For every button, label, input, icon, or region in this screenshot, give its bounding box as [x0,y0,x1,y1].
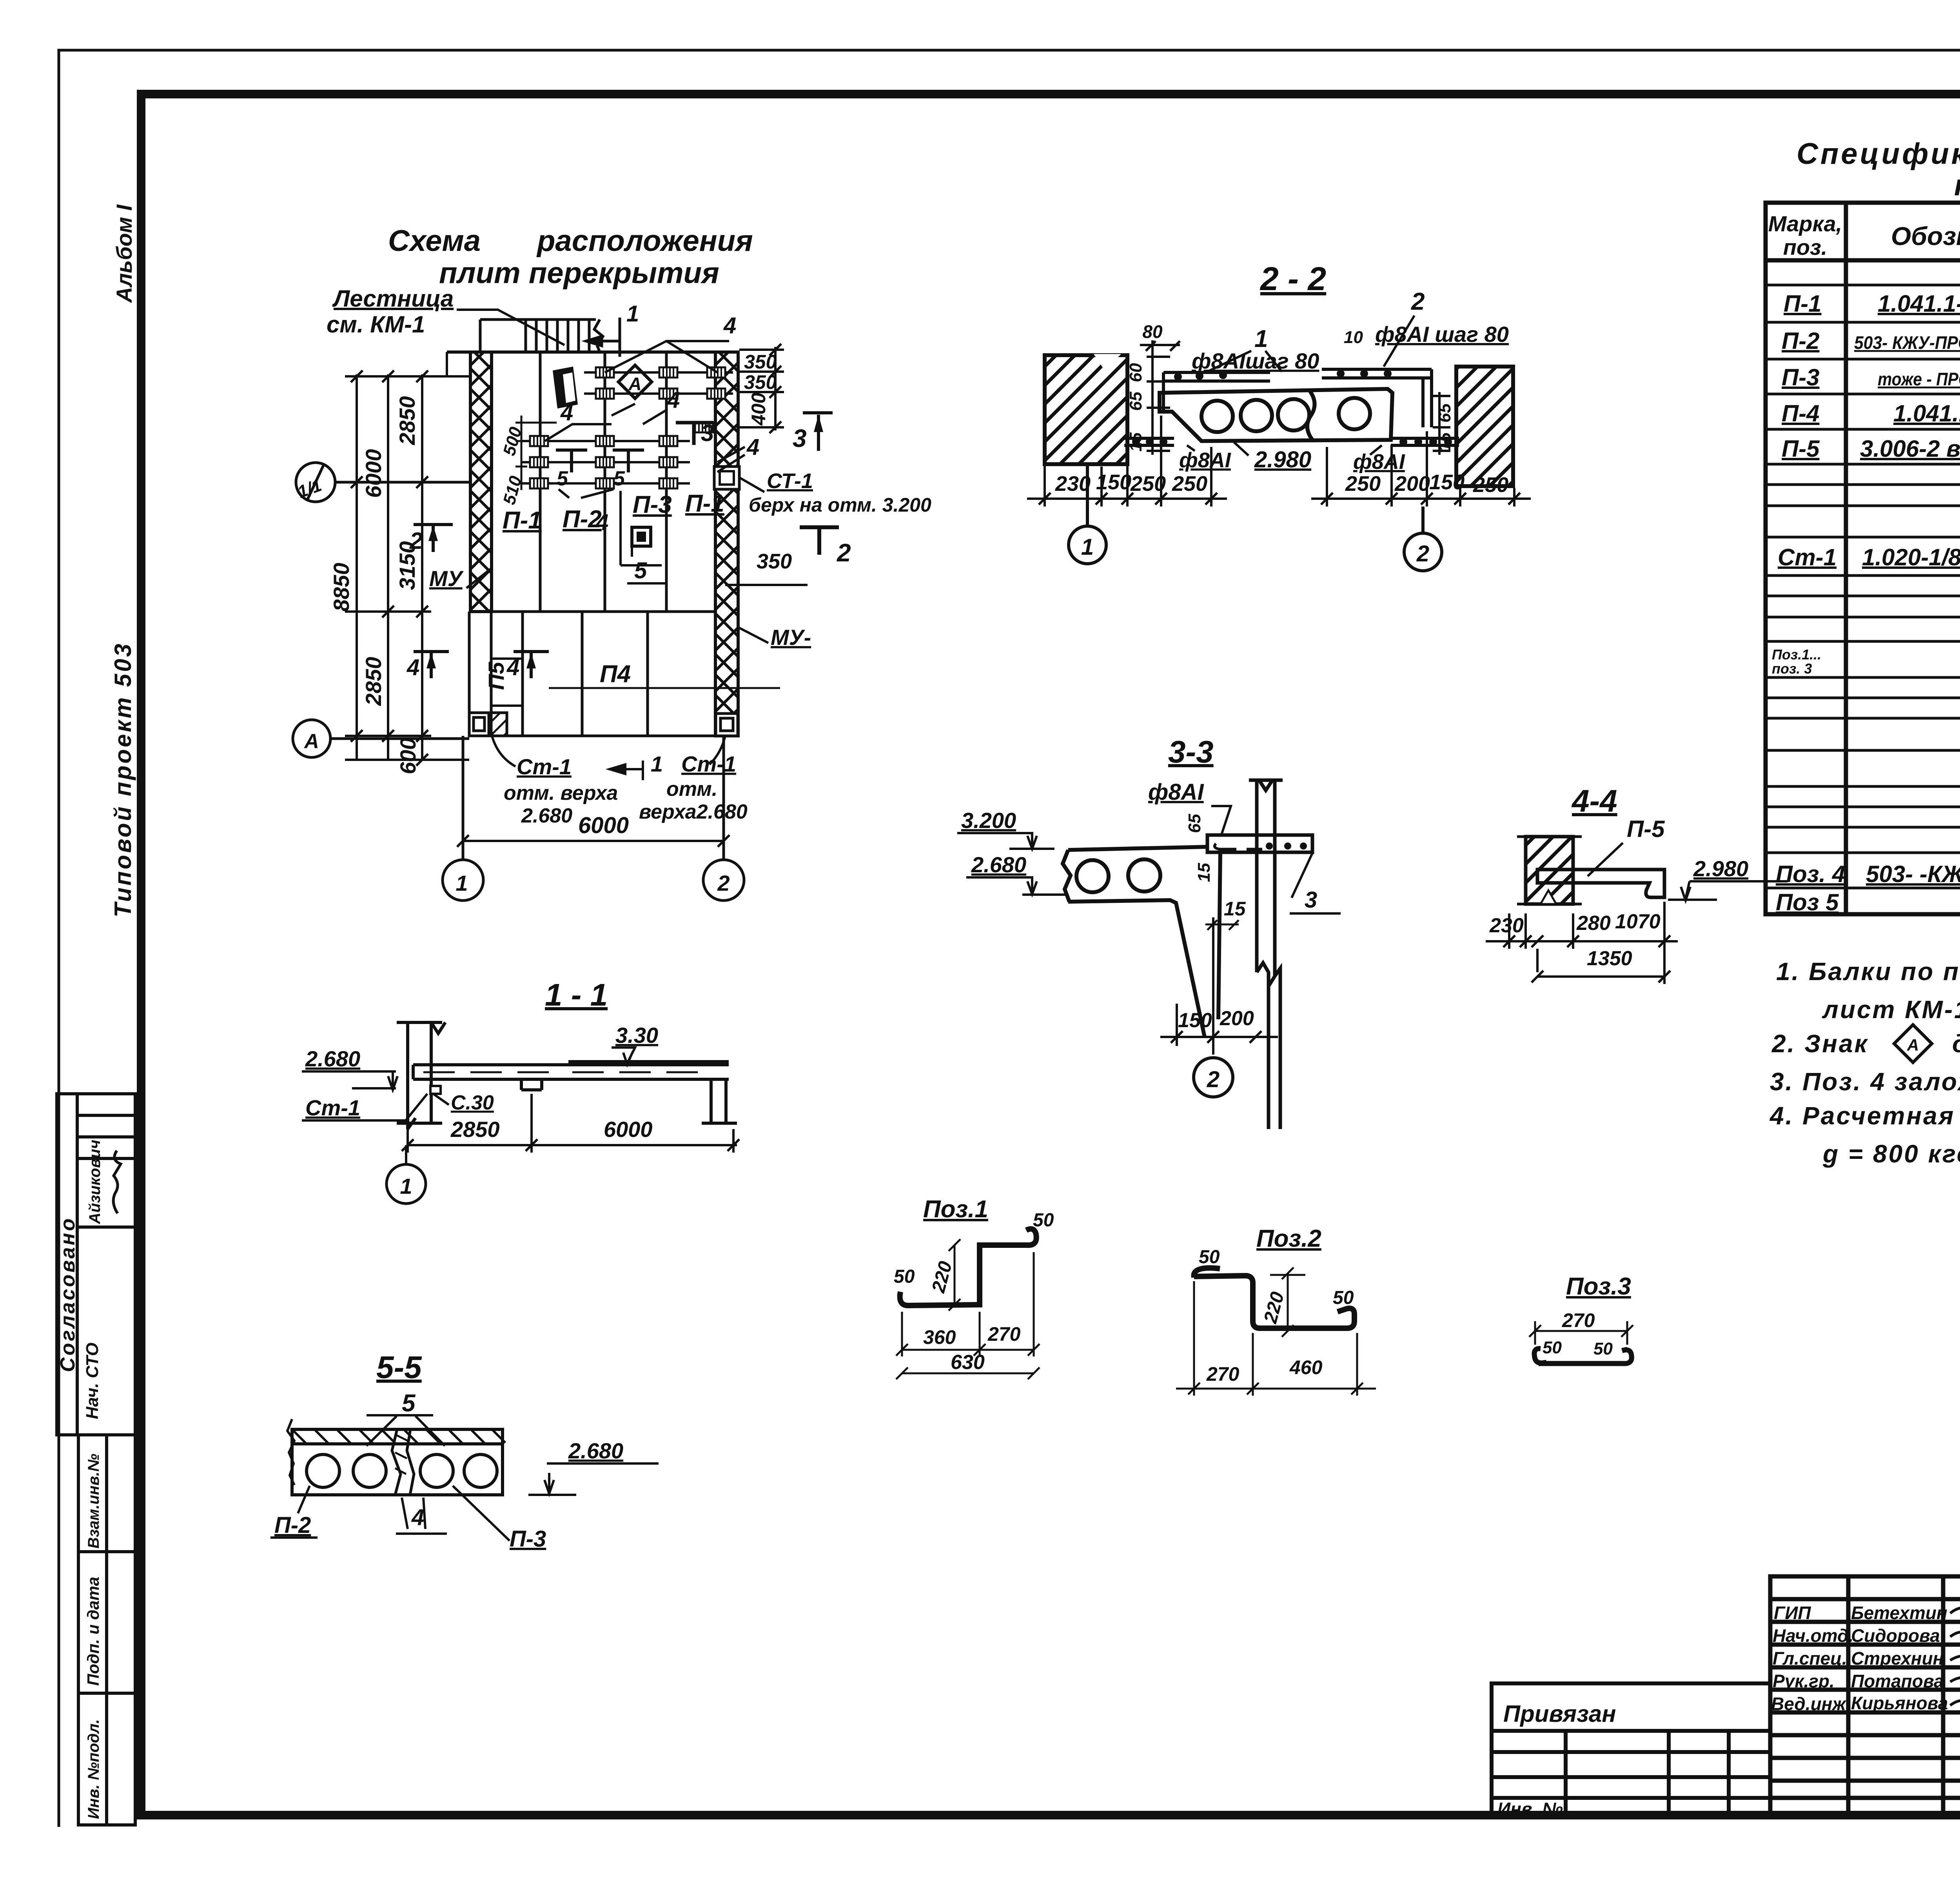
Ст-1 white box on right wall [714,467,739,489]
svg-text:берх на отм. 3.200: берх на отм. 3.200 [749,494,931,516]
column [397,1022,445,1129]
dims [402,1094,739,1153]
svg-text:4: 4 [407,655,419,680]
svg-text:Альбом I: Альбом I [112,204,136,303]
svg-text:ГИП: ГИП [1774,1603,1811,1623]
plate labels [484,490,724,690]
ticks [351,370,428,382]
sidebar box: Инв. №подл. [78,1693,135,1825]
svg-text:Ст-1: Ст-1 [305,1095,360,1120]
svg-text:П-3: П-3 [633,491,672,518]
svg-text:Сидорова: Сидорова [1851,1625,1940,1646]
svg-text:200: 200 [1394,472,1430,496]
right top dims 350/350/400 [739,344,784,433]
svg-text:Гл.спец.: Гл.спец. [1773,1648,1847,1669]
Т2 symbol [800,527,839,555]
svg-text:2850: 2850 [361,657,386,706]
svg-text:4: 4 [667,387,680,413]
svg-text:250: 250 [1473,473,1508,497]
left wall lower edge line [468,612,471,736]
slab [292,1429,503,1495]
svg-text:5-5: 5-5 [376,1350,422,1385]
svg-text:Бетехтин: Бетехтин [1851,1603,1947,1623]
svg-text:Поз. 4: Поз. 4 [1776,861,1845,887]
svg-text:СТ-1: СТ-1 [767,469,813,493]
svg-text:П-2: П-2 [274,1512,311,1538]
svg-text:А: А [303,730,319,753]
svg-text:50: 50 [1543,1338,1562,1357]
svg-text:350: 350 [744,351,777,373]
svg-text:МУ: МУ [429,566,464,591]
svg-text:Нач.отд.: Нач.отд. [1773,1625,1853,1646]
svg-text:50: 50 [894,1266,915,1287]
dims [1486,902,1678,984]
svg-text:2: 2 [837,539,851,567]
svg-text:С.30: С.30 [451,1091,494,1114]
svg-text:П4: П4 [600,661,631,688]
bottom dims [1160,1004,1278,1046]
svg-text:отм. верха: отм. верха [504,782,618,804]
svg-text:Взам.инв.№: Взам.инв.№ [85,1454,102,1549]
svg-text:тоже - ПРС56.15-16АтVт-б: тоже - ПРС56.15-16АтVт-б [1878,369,1960,389]
svg-text:3.200: 3.200 [961,808,1016,833]
500/510 small dims in plan [515,416,557,490]
svg-text:отм.: отм. [666,778,717,801]
svg-text:230: 230 [1055,472,1091,496]
top hatch band [292,1429,505,1444]
slab body with cores [1160,389,1392,441]
grid [1766,203,1960,914]
left break edge [287,1419,294,1485]
svg-text:А: А [628,374,641,394]
svg-text:150: 150 [1178,1009,1212,1032]
right small dim chain [1433,392,1450,455]
section cut 1 at top [586,318,620,357]
svg-text:верха2.680: верха2.680 [639,801,748,823]
svg-text:1350: 1350 [1587,947,1632,970]
svg-text:270: 270 [987,1323,1021,1345]
svg-text:5: 5 [634,558,647,583]
svg-text:3-3: 3-3 [1168,734,1214,769]
svg-text:65: 65 [1126,392,1145,411]
4 arrow symbols lower [414,652,549,678]
svg-text:4: 4 [560,400,573,425]
svg-text:80: 80 [1142,321,1163,342]
black orientation mark (trapezoid) [553,367,578,409]
svg-text:П-2: П-2 [1782,328,1820,354]
svg-text:2.980: 2.980 [1254,447,1311,472]
svg-text:П5: П5 [484,662,508,690]
middle joint [392,1429,414,1495]
svg-text:Поз.1: Поз.1 [923,1196,988,1223]
svg-text:П-4: П-4 [1782,400,1820,427]
2 arrow symbol in plan [414,525,453,552]
svg-text:см. КМ-1: см. КМ-1 [327,311,425,338]
svg-text:Стрехнин: Стрехнин [1851,1648,1944,1669]
svg-text:600: 600 [396,738,420,774]
svg-text:5: 5 [402,1390,416,1417]
svg-text:270: 270 [1206,1363,1240,1385]
svg-text:Потапова: Потапова [1851,1671,1944,1691]
diamond А mark [619,365,652,399]
svg-text:Поз.1...: Поз.1... [1772,646,1821,663]
svg-text:5: 5 [613,467,625,490]
svg-text:250: 250 [1130,472,1166,496]
svg-text:3: 3 [1305,887,1317,913]
plate joints vertical [469,352,738,736]
svg-text:П-3: П-3 [510,1526,546,1552]
svg-text:поз. 3: поз. 3 [1772,661,1812,677]
svg-text:2: 2 [1411,288,1425,315]
привязан annex [1492,1683,1770,1815]
svg-text:60: 60 [1126,363,1145,382]
right masonry hatched [1456,367,1513,486]
svg-text:50: 50 [1199,1247,1220,1267]
svg-text:Нач. СТО: Нач. СТО [83,1343,102,1419]
slab with cores and rib [1063,847,1220,1037]
svg-text:МУ-: МУ- [771,625,811,650]
svg-text:Спецификация к схеме распол: Спецификация к схеме расположения [1797,137,1960,171]
slab hatch ticks [423,1071,698,1073]
svg-text:460: 460 [1289,1356,1323,1378]
left wall hatched [470,352,492,612]
axis circle 2 [1194,1058,1233,1097]
svg-text:Подп. и дата: Подп. и дата [84,1577,102,1686]
svg-text:2 - 2: 2 - 2 [1259,260,1326,297]
svg-text:50: 50 [1593,1339,1613,1358]
svg-text:Вед.инж.: Вед.инж. [1771,1694,1851,1714]
svg-text:1.041.1-2 вып.1: 1.041.1-2 вып.1 [1878,291,1960,317]
Т3 symbol right [676,423,713,445]
svg-text:1070: 1070 [1615,910,1661,933]
svg-text:10: 10 [1344,328,1363,347]
axis line down to circle [1212,917,1214,1055]
П5 inner lines [491,659,523,706]
top anchor plate [1207,835,1312,852]
3 arrow symbol right [803,413,833,451]
bottom dims [1176,1281,1376,1396]
svg-text:3.30: 3.30 [615,1023,658,1048]
svg-text:ф8АI шаг 80: ф8АI шаг 80 [1375,322,1509,347]
svg-text:Ст-1: Ст-1 [1778,544,1837,570]
axis circles [293,463,744,901]
svg-text:П-1: П-1 [503,507,542,534]
section marks 5 in plan [556,450,644,472]
signatures part [1770,1576,1960,1815]
svg-text:503- -КЖИ-МН-2: 503- -КЖИ-МН-2 [1866,861,1960,887]
bottom dim chain [1027,416,1531,507]
svg-text:50: 50 [1333,1287,1354,1308]
svg-text:4: 4 [506,655,519,680]
bottom corner boxes (Ст-1) [469,713,738,736]
right wall hatched [715,352,738,736]
svg-text:250: 250 [1345,472,1381,496]
signature scribbles [1950,1601,1960,1713]
bottom 6000 dim [457,835,730,847]
svg-text:2850: 2850 [395,396,419,445]
svg-text:3.006-2 вып. П-2: 3.006-2 вып. П-2 [1860,436,1960,462]
svg-text:Айзикович: Айзикович [86,1140,103,1224]
svg-text:4: 4 [411,1505,424,1530]
svg-text:Схема: Схема [388,224,481,258]
svg-text:Поз.2: Поз.2 [1256,1225,1321,1252]
svg-text:поз.: поз. [1783,235,1828,260]
svg-text:2.680: 2.680 [568,1438,623,1463]
svg-text:230: 230 [1489,914,1524,937]
left small dim chain [1140,340,1180,455]
top edge of slabs [447,350,715,354]
svg-text:Согласовано: Согласовано [56,1216,79,1372]
svg-text:Ст-1: Ст-1 [681,752,736,776]
svg-text:400: 400 [748,392,769,426]
table body rows [1772,258,1960,915]
svg-text:2.680: 2.680 [971,852,1026,877]
svg-text:1: 1 [1081,534,1094,560]
leader 4 labels [545,341,745,498]
svg-text:Привязан: Привязан [1503,1701,1616,1727]
svg-text:Инв. №: Инв. № [1497,1799,1563,1819]
svg-text:4. Расчетная нагрузка на: 4. Расчетная нагрузка на перекрытие [1769,1102,1960,1130]
svg-text:1: 1 [400,1174,412,1198]
svg-text:ф8АI: ф8АI [1148,779,1204,805]
svg-text:2.680: 2.680 [305,1046,360,1071]
5 with small square [632,527,651,546]
svg-text:ф8АI: ф8АI [1353,450,1405,474]
svg-text:3: 3 [701,420,714,446]
svg-text:350: 350 [757,550,792,573]
svg-text:1: 1 [626,301,639,327]
svg-text:65: 65 [1435,403,1454,423]
svg-text:2: 2 [1416,541,1429,566]
svg-text:3. Поз. 4 заложить в швы п: 3. Поз. 4 заложить в швы плит перекрытия [1770,1068,1960,1096]
svg-text:1. Балки по перекрытию и л: 1. Балки по перекрытию и лестницу см. [1776,957,1960,986]
svg-text:65: 65 [1185,814,1204,833]
svg-text:2. Знак: 2. Знак [1771,1029,1869,1058]
svg-text:2850: 2850 [450,1117,500,1142]
svg-text:2: 2 [1207,1067,1220,1092]
bent bar [1194,1268,1354,1328]
svg-text:П-1: П-1 [685,490,724,517]
svg-text:2.980: 2.980 [1693,856,1748,881]
section 5 enclosure [621,491,662,565]
masonry [1526,837,1573,904]
svg-text:П-5: П-5 [1782,436,1820,462]
svg-text:лист КМ-1.: лист КМ-1. [1822,995,1960,1024]
note 2 diamond symbol [1894,1025,1932,1062]
svg-text:дан для ориентации плиты.: дан для ориентации плиты. [1952,1029,1960,1058]
svg-text:15: 15 [1224,898,1246,920]
svg-text:3150: 3150 [395,541,419,590]
svg-text:15: 15 [1194,863,1214,882]
sidebar box: Взам.инв.№ [78,1435,135,1552]
topping plates with rebar dots [1163,369,1432,427]
left masonry hatched [1045,355,1127,464]
slab strip [413,1062,737,1123]
svg-text:150: 150 [1429,470,1465,494]
svg-text:270: 270 [1562,1309,1595,1331]
axis circles [1069,464,1442,571]
svg-text:плит перекрытия: плит перекрытия [1954,169,1960,202]
220 vertical dim [1270,1267,1305,1337]
svg-text:ф8АIшаг 80: ф8АIшаг 80 [1192,349,1319,373]
svg-text:g = 800 кгс/м².: g = 800 кгс/м². [1822,1140,1960,1168]
svg-text:Поз.3: Поз.3 [1566,1273,1631,1300]
svg-text:Рук.гр.: Рук.гр. [1773,1671,1835,1691]
svg-text:А: А [1907,1036,1919,1054]
svg-text:200: 200 [1220,1007,1254,1030]
svg-text:5: 5 [557,467,568,490]
svg-text:2.680: 2.680 [521,804,572,827]
axis circle [387,1164,426,1204]
stairs [480,320,603,352]
svg-text:8850: 8850 [329,563,354,612]
slab [1537,870,1664,897]
svg-text:Поз 5: Поз 5 [1776,889,1839,915]
svg-text:Лестница: Лестница [332,285,454,312]
svg-text:3: 3 [793,424,807,452]
svg-text:630: 630 [951,1351,985,1374]
svg-text:250: 250 [1172,472,1207,496]
svg-text:4: 4 [723,313,736,338]
svg-text:1 - 1: 1 - 1 [545,977,608,1012]
svg-text:6000: 6000 [361,449,386,498]
svg-text:50: 50 [1033,1210,1054,1231]
svg-text:плит перекрытия: плит перекрытия [439,256,719,290]
svg-text:350: 350 [744,371,777,393]
svg-text:150: 150 [1096,470,1131,494]
svg-text:4-4: 4-4 [1571,783,1617,818]
svg-text:Типовой проект 503: Типовой проект 503 [110,642,136,917]
svg-text:360: 360 [923,1326,956,1348]
svg-text:ф8АI: ф8АI [1179,448,1231,472]
svg-text:280: 280 [1576,912,1611,935]
sidebar box: Согласовано [57,1094,135,1435]
svg-text:расположения: расположения [536,224,753,258]
svg-text:503- КЖУ-ПРС56.15-16АтVТ-а: 503- КЖУ-ПРС56.15-16АтVТ-а [1854,332,1960,353]
svg-text:Кирьянова: Кирьянова [1851,1693,1948,1713]
rebar anchors rows with bars [521,372,733,483]
svg-text:1.020-1/83 вып. 7-1: 1.020-1/83 вып. 7-1 [1862,544,1960,570]
svg-text:П-3: П-3 [1782,364,1820,390]
left dimension chains [345,370,469,766]
svg-text:15: 15 [1126,432,1145,452]
bottom bars with dots [1124,438,1459,445]
svg-text:Ст-1: Ст-1 [517,754,572,779]
svg-text:П-2: П-2 [563,506,602,533]
wall right [1249,780,1283,1129]
anchor dot on column [430,1086,441,1094]
svg-text:Обозначение: Обозначение [1891,222,1960,251]
svg-text:1: 1 [651,752,663,776]
svg-text:6000: 6000 [604,1117,653,1142]
svg-text:15: 15 [1435,432,1454,452]
sidebar box: Подп. и дата [78,1552,135,1693]
svg-text:1.041.1-2 вып.5: 1.041.1-2 вып.5 [1893,400,1960,427]
svg-text:П-5: П-5 [1627,816,1665,842]
svg-text:П-1: П-1 [1784,291,1822,317]
svg-text:6000: 6000 [578,813,629,838]
svg-text:Марка,: Марка, [1768,211,1842,236]
header texts [1768,209,1960,260]
svg-text:1: 1 [456,871,468,895]
svg-text:2: 2 [717,871,730,895]
svg-text:4: 4 [746,434,759,460]
svg-text:Инв. №подл.: Инв. №подл. [85,1719,102,1819]
